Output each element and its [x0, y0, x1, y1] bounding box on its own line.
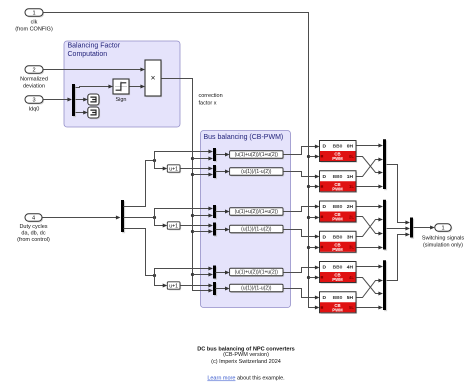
fcn block (u(1))/(1-u(2)) group 2	[230, 225, 285, 234]
wire Normalized deviation to product	[44, 68, 146, 72]
wire correction factor x	[162, 79, 214, 293]
svg-text:1: 1	[441, 226, 444, 232]
wire Idq0 to demux	[44, 98, 73, 102]
svg-text:PWM: PWM	[332, 247, 343, 252]
CB-PWM block 0H/0L	[320, 141, 358, 163]
svg-text:D: D	[323, 265, 327, 271]
junction group 2 split	[153, 216, 156, 219]
wire mux 1b to fcn	[216, 170, 230, 174]
CB-PWM block 5H/5L	[320, 292, 358, 314]
wire mux 2a to fcn	[216, 210, 230, 214]
svg-text:2: 2	[32, 68, 35, 74]
final mux	[410, 218, 414, 239]
svg-text:4H: 4H	[347, 265, 354, 271]
inport 4 Duty cycles	[17, 214, 50, 243]
svg-text:D: D	[323, 234, 327, 240]
svg-text:D: D	[323, 295, 327, 301]
svg-text:(from CONFIG): (from CONFIG)	[15, 27, 53, 33]
svg-text:(u(1)+u(2))/(1+u(2)): (u(1)+u(2))/(1+u(2))	[235, 270, 279, 276]
wire group 1 to u+1 block	[155, 161, 168, 171]
wire 4L crossing down to mux bar 3	[357, 278, 384, 296]
wire demux B out2 feed	[124, 217, 155, 219]
svg-text:PWM: PWM	[332, 156, 343, 161]
demux A (Idq0 selector)	[72, 84, 76, 117]
svg-text:u+1: u+1	[169, 166, 178, 172]
CB-PWM block 1H/1L	[320, 171, 358, 193]
wire 3H crossing up to mux bar 2	[357, 218, 384, 237]
wire demux A out2 to probe B1	[76, 98, 88, 102]
wire group 2 to mux2a input 1	[155, 207, 214, 218]
wire Sign to product	[130, 85, 146, 89]
wire 2H to mux bar 2	[357, 205, 384, 209]
junction clk branch y=156.5	[307, 155, 320, 159]
svg-text:PWM: PWM	[332, 217, 343, 222]
wire mux bar 3 to final mux	[387, 233, 411, 281]
wire mux 3a to fcn	[216, 271, 230, 275]
svg-text:2H: 2H	[347, 204, 354, 210]
svg-text:BB0: BB0	[333, 265, 343, 271]
svg-text:correction: correction	[199, 93, 223, 99]
wire 1H crossing up to mux bar 1	[357, 158, 384, 177]
svg-text:Bus balancing (CB-PWM): Bus balancing (CB-PWM)	[204, 134, 284, 141]
caption subtitle	[223, 352, 269, 358]
product block (x)	[145, 60, 162, 97]
wire 5H crossing up to mux bar 3	[357, 279, 384, 298]
svg-text:PWM: PWM	[332, 186, 343, 191]
probe block B2	[88, 107, 100, 119]
wire u+1 group 1 to mux1b	[181, 167, 214, 171]
wire group 2 to u+1 block	[155, 218, 168, 228]
wire demux B out3 feed	[124, 229, 155, 276]
mux 2a	[213, 205, 217, 219]
svg-text:BB0: BB0	[333, 174, 343, 180]
junction correction branch y=215.5	[191, 214, 213, 218]
mux bar 1 (outputs group 1)	[383, 139, 387, 190]
wire fcn group 2 upper to CB-PWM D	[284, 205, 320, 212]
wire clk from inport 1 to CB-PWM clock inputs	[44, 13, 320, 310]
wire mux 3b to fcn	[216, 287, 230, 291]
fcn block (u(1)+u(2))/(1+u(2)) group 2	[230, 208, 285, 217]
caption learn more	[207, 376, 285, 382]
mux bar 2 (outputs group 2)	[383, 200, 387, 251]
svg-text:da, db, dc: da, db, dc	[21, 231, 45, 237]
svg-text:(u(1))/(1-u(2)): (u(1))/(1-u(2))	[241, 227, 272, 233]
svg-text:Switching signals: Switching signals	[422, 236, 464, 242]
gain block u+1 group 3	[167, 282, 181, 291]
wire fcn group 2 lower to CB-PWM D	[284, 230, 320, 239]
svg-text:Duty cycles: Duty cycles	[19, 224, 47, 230]
area Bus balancing (CB-PWM)	[201, 131, 291, 308]
caption title	[197, 347, 295, 353]
svg-text:BB0: BB0	[333, 295, 343, 301]
fcn block (u(1)+u(2))/(1+u(2)) group 1	[230, 151, 285, 160]
junction clk branch y=247	[307, 246, 320, 250]
svg-text:1L: 1L	[349, 184, 354, 189]
fcn block (u(1))/(1-u(2)) group 3	[230, 284, 285, 293]
mux bar 3 (outputs group 3)	[383, 260, 387, 311]
svg-text:×: ×	[151, 74, 156, 83]
svg-text:Normalized: Normalized	[20, 77, 48, 83]
svg-text:Idq0: Idq0	[29, 107, 40, 113]
wire 4H to mux bar 3	[357, 265, 384, 269]
svg-text:4L: 4L	[349, 275, 354, 280]
svg-text:(simulation only): (simulation only)	[423, 243, 463, 249]
svg-text:Learn more about this example.: Learn more about this example.	[207, 376, 285, 382]
svg-text:(u(1))/(1-u(2)): (u(1))/(1-u(2))	[241, 286, 272, 292]
svg-text:0H: 0H	[347, 144, 354, 150]
area Balancing Factor Computation	[64, 41, 180, 127]
caption copyright	[211, 359, 281, 365]
mux 1b	[213, 165, 217, 179]
svg-text:u+1: u+1	[169, 223, 178, 229]
inport 3 Idq0	[25, 96, 44, 113]
label Sign	[115, 97, 126, 103]
junction group 1 split	[153, 159, 156, 162]
svg-text:3: 3	[32, 98, 35, 104]
wire 2L crossing down to mux bar 2	[357, 217, 384, 236]
svg-text:1: 1	[32, 11, 35, 17]
CB-PWM block 2H/2L	[320, 201, 358, 223]
svg-text:BB0: BB0	[333, 204, 343, 210]
wire group 1 to mux1a input 1	[155, 150, 214, 161]
svg-text:5L: 5L	[349, 305, 354, 310]
svg-text:BB0: BB0	[333, 144, 343, 150]
label correction factor x	[199, 93, 223, 107]
wire mux bar 1 to final mux	[387, 165, 411, 225]
wire mux 2b to fcn	[216, 228, 230, 232]
svg-text:0L: 0L	[349, 154, 354, 159]
wire group 3 to u+1 block	[155, 276, 168, 288]
wire fcn group 1 lower to CB-PWM D	[284, 172, 320, 179]
svg-text:Computation: Computation	[68, 51, 108, 58]
inport 1 clk	[15, 9, 53, 33]
svg-text:5H: 5H	[347, 295, 354, 301]
outport 1 Switching signals	[422, 224, 464, 249]
svg-text:(u(1)+u(2))/(1+u(2)): (u(1)+u(2))/(1+u(2))	[235, 152, 279, 158]
wire final mux to outport	[414, 226, 435, 230]
fcn block (u(1))/(1-u(2)) group 1	[230, 168, 285, 177]
wire mux bar 2 to final mux	[387, 227, 411, 231]
wire fcn group 3 lower to CB-PWM D	[284, 289, 320, 300]
mux 2b	[213, 223, 217, 237]
svg-text:1H: 1H	[347, 174, 354, 180]
svg-text:D: D	[323, 144, 327, 150]
svg-text:2L: 2L	[349, 214, 354, 219]
svg-text:3H: 3H	[347, 234, 354, 240]
svg-text:BB0: BB0	[333, 234, 343, 240]
svg-text:3L: 3L	[349, 245, 354, 250]
wire fcn group 3 upper to CB-PWM D	[284, 266, 320, 273]
svg-text:deviation: deviation	[23, 84, 45, 90]
wire demux B out1 feed	[124, 161, 155, 207]
CB-PWM block 4H/4L	[320, 262, 358, 284]
junction clk branch y=217	[307, 216, 320, 220]
wire u+1 group 3 to mux3b	[181, 284, 214, 288]
CB-PWM block 3H/3L	[320, 231, 358, 253]
wire group 3 to mux3a input 1	[155, 267, 214, 276]
wire Duty cycles to demux	[43, 216, 121, 220]
wire 5L to mux bar 3	[357, 306, 384, 310]
svg-text:D: D	[323, 204, 327, 210]
gain block u+1 group 2	[167, 222, 181, 231]
mux 3b	[213, 282, 217, 296]
wire 0L crossing down to mux bar 1	[357, 157, 384, 175]
junction group 3 split	[153, 274, 156, 277]
junction correction branch y=158.5	[191, 157, 213, 161]
svg-text:(CB-PWM version): (CB-PWM version)	[223, 352, 269, 358]
mux 3a	[213, 266, 217, 280]
junction clk branch y=277	[307, 276, 320, 280]
wire fcn group 1 upper to CB-PWM D	[284, 145, 320, 155]
junction correction branch y=274.5	[191, 273, 213, 277]
svg-text:PWM: PWM	[332, 307, 343, 312]
svg-text:4: 4	[32, 216, 35, 222]
svg-text:(u(1))/(1-u(2)): (u(1))/(1-u(2))	[241, 169, 272, 175]
mux 1a	[213, 148, 217, 162]
svg-text:clk: clk	[31, 20, 38, 26]
wire 1L to mux bar 1	[357, 185, 384, 189]
wire demux A out3 to probe B2	[76, 111, 88, 115]
svg-text:(c) Imperix Switzerland 2024: (c) Imperix Switzerland 2024	[211, 359, 281, 365]
svg-text:D: D	[323, 174, 327, 180]
probe block B1	[88, 94, 100, 106]
svg-text:Balancing Factor: Balancing Factor	[68, 43, 121, 50]
junction clk branch y=186.5	[307, 185, 320, 189]
svg-text:u+1: u+1	[169, 283, 178, 289]
svg-text:(u(1)+u(2))/(1+u(2)): (u(1)+u(2))/(1+u(2))	[235, 209, 279, 215]
wire u+1 group 2 to mux2b	[181, 224, 214, 228]
gain block u+1 group 1	[167, 165, 181, 174]
inport 2 Normalized deviation	[20, 66, 48, 90]
fcn block (u(1)+u(2))/(1+u(2)) group 3	[230, 268, 285, 277]
wire 3L to mux bar 2	[357, 246, 384, 250]
svg-text:PWM: PWM	[332, 277, 343, 282]
wire demux A out1 to Sign	[76, 85, 114, 89]
wire mux 1a to fcn	[216, 153, 230, 157]
svg-text:(from control): (from control)	[17, 237, 50, 243]
svg-text:factor x: factor x	[199, 101, 217, 107]
Sign block	[113, 79, 130, 95]
demux B (duty cycles)	[121, 200, 125, 233]
svg-text:Sign: Sign	[115, 97, 126, 103]
wire 0H to mux bar 1	[357, 144, 384, 148]
junction correction branch y=231.5	[191, 230, 213, 234]
junction correction branch y=174.5	[191, 173, 213, 177]
